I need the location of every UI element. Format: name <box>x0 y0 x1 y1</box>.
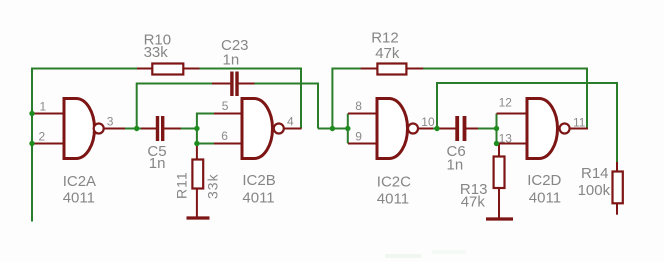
node: IC2D pin13 / R13 junction <box>494 141 499 146</box>
svg-text:47k: 47k <box>461 194 486 211</box>
node: IC2B pin6 / R11 junction <box>194 141 199 146</box>
wire: IC2B input tie vertical with pin5 lead-in <box>197 114 215 144</box>
svg-text:IC2B: IC2B <box>242 172 275 189</box>
svg-text:R11: R11 <box>174 171 190 199</box>
svg-text:11: 11 <box>573 116 586 130</box>
wire: left feedback vertical + top horizontal to R10 <box>32 69 138 222</box>
wire: node A horizontal (pin3 to C5) <box>124 128 142 130</box>
svg-text:12: 12 <box>499 95 513 109</box>
wire: C5 right to IC2B inputs <box>180 128 197 130</box>
capacitor C23 <box>212 37 255 96</box>
svg-text:8: 8 <box>355 99 362 113</box>
svg-text:33k: 33k <box>144 44 169 61</box>
svg-text:1n: 1n <box>149 155 166 172</box>
svg-text:4011: 4011 <box>242 190 274 207</box>
node B: C5 right / IC2B pin5 junction <box>194 126 199 131</box>
svg-text:4011: 4011 <box>63 190 95 207</box>
svg-text:1: 1 <box>40 100 47 114</box>
wire: IC2C output up and across to R14 drop <box>437 83 617 163</box>
node: C6 right / IC2D pin12 junction <box>494 126 499 131</box>
wire: IC2C input tie vertical <box>347 114 349 144</box>
wire: IC2C input horizontal <box>318 128 348 130</box>
wire: R10 right to IC2B output drop <box>199 69 301 129</box>
node A: IC2A output / C5 / C23 junction <box>134 126 139 131</box>
resistor R14 <box>578 162 623 215</box>
svg-text:6: 6 <box>221 129 228 143</box>
NAND gate IC2D <box>497 95 589 206</box>
wire: IC2D input tie vertical <box>496 114 498 144</box>
resistor R13 <box>460 144 505 218</box>
node: IC2C input tie junction <box>345 126 350 131</box>
wire: R12 right to IC2D output drop <box>423 69 588 129</box>
svg-text:10: 10 <box>421 115 435 129</box>
wire: faint residual mark (bottom) <box>385 254 421 258</box>
resistor R12 <box>361 30 424 75</box>
node: IC2C input / R12 junction <box>330 126 335 131</box>
NAND gate IC2A <box>34 99 125 207</box>
NAND gate IC2B <box>214 99 302 207</box>
ground (R11) <box>187 216 210 219</box>
svg-text:5: 5 <box>222 99 229 113</box>
resistor R10 <box>137 32 200 75</box>
node: IC2A pin2 junction <box>29 141 34 146</box>
svg-text:9: 9 <box>355 130 362 144</box>
svg-text:4: 4 <box>287 115 294 129</box>
ground (R13) <box>486 217 513 220</box>
wire: C6 right to IC2D inputs <box>477 128 497 130</box>
node: IC2A pin1 junction <box>29 111 34 116</box>
svg-text:1n: 1n <box>447 157 464 174</box>
resistor R11 <box>174 144 221 217</box>
svg-text:47k: 47k <box>375 45 400 62</box>
node: IC2C output / C6 junction <box>434 126 439 131</box>
wire: C23 right to IC2C input net <box>254 84 318 129</box>
svg-text:IC2C: IC2C <box>377 173 411 190</box>
capacitor C6 <box>440 116 479 174</box>
capacitor C5 <box>141 116 181 172</box>
svg-text:13: 13 <box>499 132 513 146</box>
svg-text:1n: 1n <box>223 52 240 69</box>
svg-text:4011: 4011 <box>529 190 561 207</box>
svg-text:3: 3 <box>107 114 114 128</box>
svg-text:2: 2 <box>39 129 46 143</box>
svg-text:IC2D: IC2D <box>527 172 561 189</box>
wire: IC2C output horizontal to C6 <box>432 128 442 130</box>
NAND gate IC2C <box>348 99 435 208</box>
wire: node A up to C23 net <box>137 84 213 129</box>
wire: IC2C input up to R12 net <box>332 69 361 129</box>
svg-text:100k: 100k <box>578 182 611 199</box>
svg-text:4011: 4011 <box>377 191 409 208</box>
svg-text:R14: R14 <box>581 165 609 182</box>
svg-text:IC2A: IC2A <box>63 173 96 190</box>
svg-text:33k: 33k <box>205 173 221 199</box>
